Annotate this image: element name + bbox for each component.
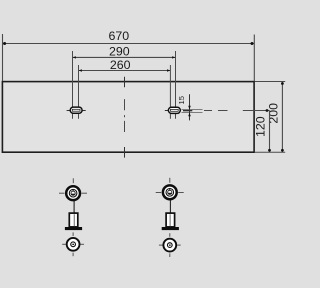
right slot centerline tick left [165,110,169,112]
right fastener top view crosshair right dash [178,192,184,194]
right fastener middle ring [166,189,174,197]
right fastener top view crosshair top dash [169,178,171,183]
left fastener inner circle [71,191,75,195]
left fastener side view thread line [73,214,75,226]
dimension line 260 [79,70,171,72]
hole centerline dash 2 [218,110,228,112]
arrow 200 bottom [281,149,284,152]
extension line left (670) [2,34,4,81]
svg-text:200: 200 [266,103,280,124]
right extension line top (200) [255,81,285,83]
svg-text:120: 120 [253,116,267,137]
plate vertical centerline bottom tick [124,147,126,158]
dimension line 120 [269,111,271,153]
left slot inner bar [72,109,80,111]
right slot obround [168,107,180,113]
arrow 670 right [251,42,254,45]
arrow 670 left [3,42,6,45]
right fastener bottom view crosshair right dash [177,244,181,246]
right fastener bottom view outer ring [163,239,176,252]
right fastener bottom view inner ring [167,243,172,248]
left fastener bottom view crosshair left dash [62,243,66,245]
dimension line 290 [73,56,176,58]
slot centerline dark segment [183,110,192,112]
left fastener bottom view crosshair top dash [72,232,74,236]
right fastener flange [162,227,179,230]
15 dim extension line bottom [182,112,203,114]
plate vertical centerline dash 2 [124,121,126,132]
right fastener washer outer ring [163,185,177,199]
left fastener washer outer ring [66,186,80,200]
left fastener top view crosshair left dash [59,192,65,194]
left fastener flange [65,227,82,230]
right fastener bottom view crosshair top dash [169,233,171,237]
dimension line 200 [281,82,283,153]
left fastener bottom view crosshair right dash [80,243,84,245]
dimension line 670 [2,43,254,45]
plate vertical centerline dot [124,115,126,117]
extension line right outer (290) [175,51,177,119]
arrow 260 right [167,69,170,71]
arrow 260 left [79,69,82,71]
left fastener bottom view inner ring [71,242,76,247]
15 dimension line [189,94,191,120]
right fastener bottom view crosshair bottom dash [169,253,171,257]
left slot centerline tick left [67,110,71,112]
left fastener shaft line [73,200,75,213]
left slot centerline tick right [82,110,86,112]
plate outline [2,82,254,153]
extension line right inner (260) [169,65,171,119]
extension line right (670) [253,35,255,82]
left fastener top view crosshair top dash [72,178,74,183]
left fastener side view body [69,213,78,227]
left slot obround [70,107,82,113]
right fastener bottom view crosshair left dash [159,244,163,246]
left fastener bottom view crosshair bottom dash [72,253,74,257]
svg-text:290: 290 [109,45,130,59]
arrow at 120 top [266,109,269,112]
right fastener bottom view center square [169,245,171,246]
left fastener inner top tick [72,190,74,192]
right fastener top view crosshair left dash [156,192,162,194]
arrow 290 right [172,56,175,58]
right fastener inner circle [168,190,172,194]
left fastener inner slot bar [71,194,75,195]
left fastener bottom view outer ring [67,238,80,251]
plate vertical centerline top tick [124,77,126,88]
15 arrow bottom [188,113,191,117]
svg-text:15: 15 [177,96,186,104]
right fastener inner slot bar [168,193,172,194]
hole centerline dash 1 [204,110,212,112]
right extension line bottom (200/120) [255,151,285,153]
extension line left inner (260) [78,65,80,119]
arrow 290 left [73,56,76,58]
svg-text:260: 260 [110,58,131,72]
right fastener inner top tick [169,189,171,191]
hole centerline solid to 120 dim [243,110,270,112]
left fastener top view crosshair right dash [82,192,88,194]
15 dim extension line top [182,108,203,110]
arrow 200 top [281,82,284,85]
svg-text:670: 670 [108,29,129,43]
right fastener shaft line [169,200,171,213]
right slot inner bar [171,109,179,111]
right fastener side view thread line [169,214,171,226]
plate vertical centerline dash [124,99,126,110]
extension line left outer (290) [72,51,74,119]
left fastener middle ring [69,189,77,197]
15 arrow top [188,106,191,110]
right fastener side view body [166,213,175,227]
arrow 120 bottom [268,149,271,152]
left fastener bottom view center square [72,244,74,245]
